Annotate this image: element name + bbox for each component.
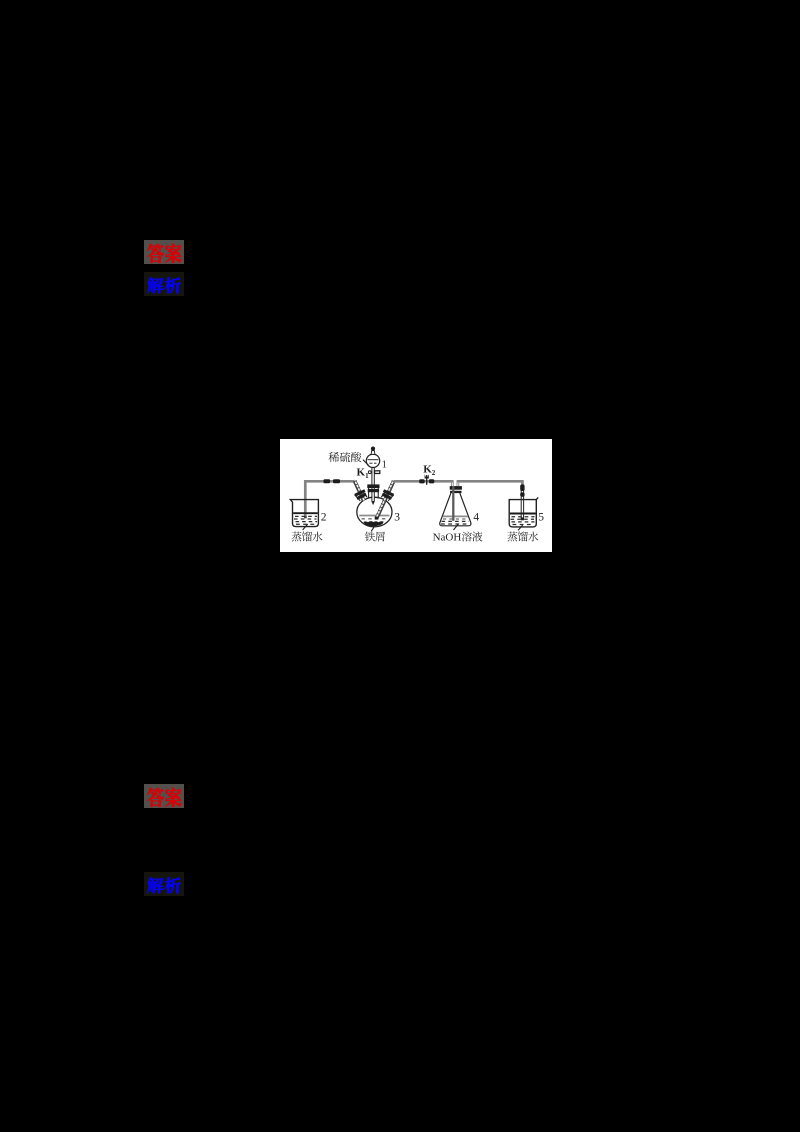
- svg-text:1: 1: [382, 459, 387, 470]
- NaOH solution: [443, 515, 468, 517]
- water in beaker 2: [293, 512, 318, 514]
- flask 4 body: [440, 493, 471, 526]
- svg-text:NaOH: NaOH: [433, 531, 462, 543]
- beaker 2: [290, 500, 318, 527]
- rubber connectors on left tube: [324, 479, 331, 483]
- answer tag (red) top: [144, 240, 184, 269]
- wire: flask 3 to flask 4: [394, 481, 453, 486]
- label 铁屑: [365, 531, 375, 541]
- flask 3 left neck: [355, 495, 361, 501]
- flask 3 centre neck: [368, 485, 370, 499]
- stopper on left neck: [354, 489, 367, 500]
- analysis tag (blue) bottom: [144, 872, 184, 901]
- flask 3 body: [357, 497, 392, 527]
- stopper on right neck: [381, 489, 394, 500]
- funnel top neck + stopper: [371, 451, 375, 455]
- analysis tag (blue) top: [144, 272, 184, 301]
- delivery tube through left stopper: [355, 481, 364, 501]
- delivery tube through right stopper into liquid: [377, 481, 394, 518]
- funnel bulb 1: [366, 454, 379, 467]
- valve K2: [419, 479, 424, 483]
- svg-text:4: 4: [473, 511, 479, 523]
- answer tag (red) bottom: [144, 784, 184, 813]
- label 稀硫酸: [329, 452, 340, 462]
- funnel stem through centre neck: [372, 467, 374, 504]
- apparatus diagram panel: [280, 439, 552, 557]
- flask 3 right neck: [388, 495, 394, 501]
- inner tube in flask 4: [452, 486, 454, 521]
- connectors on tube 5: [520, 484, 524, 491]
- water in beaker 5: [510, 513, 536, 515]
- iron filings: [363, 521, 383, 526]
- flask 3 liquid: [359, 515, 389, 517]
- wire: flask 4 to beaker 5: [458, 481, 523, 487]
- svg-text:3: 3: [394, 511, 400, 523]
- glass tube into beaker 5: [521, 489, 523, 518]
- label 蒸馏水 right: [507, 532, 517, 542]
- label 蒸馏水 left: [292, 532, 302, 542]
- svg-text:2: 2: [321, 511, 327, 523]
- wire: gas tube elbow to beaker 2: [305, 481, 354, 518]
- svg-text:5: 5: [538, 511, 544, 523]
- stopper on flask 4: [450, 486, 462, 490]
- beaker 5: [509, 497, 538, 527]
- stopper on centre neck: [367, 484, 379, 488]
- stopcock K1: [368, 471, 371, 474]
